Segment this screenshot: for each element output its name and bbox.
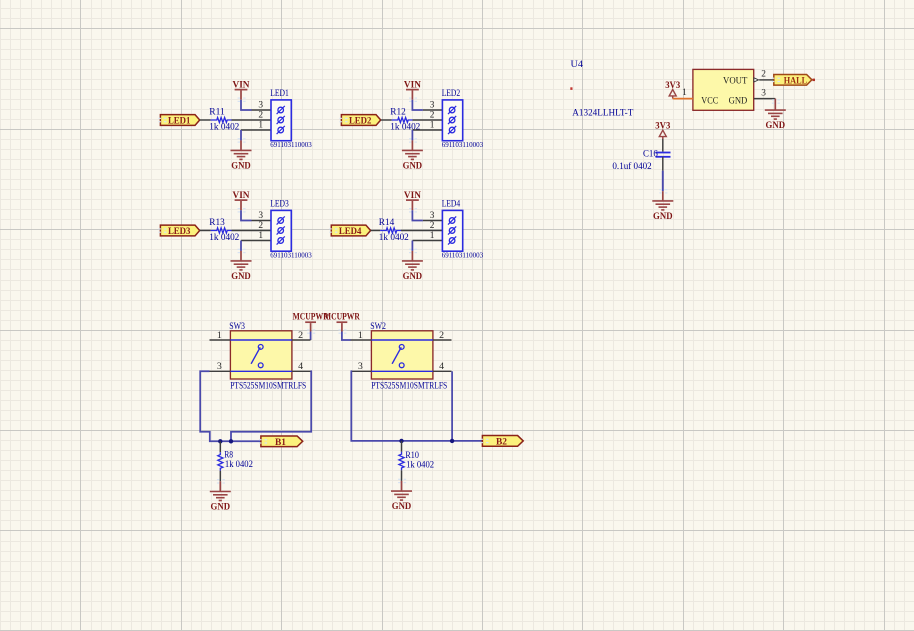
svg-text:GND: GND	[231, 272, 251, 282]
svg-text:1k 0402: 1k 0402	[379, 232, 409, 242]
junction node (R8 tap)	[218, 439, 222, 443]
svg-text:LED1: LED1	[270, 89, 289, 99]
svg-text:0.1uf 0402: 0.1uf 0402	[612, 161, 652, 171]
wire VIN to pin 3 of LED3	[241, 210, 252, 220]
pin 3 of LED3	[252, 220, 272, 222]
svg-text:PTS525SM10SMTRLFS: PTS525SM10SMTRLFS	[371, 380, 447, 390]
svg-text:GND: GND	[231, 162, 251, 172]
pin 1 of SW2	[351, 339, 372, 341]
wire SW3 pin 3 to B1	[200, 371, 261, 441]
ground GND (LED3 block)	[231, 249, 252, 282]
power VIN (LED4 block)	[404, 191, 421, 212]
pin 4 of SW2	[433, 370, 452, 372]
svg-text:3: 3	[430, 100, 435, 110]
svg-text:2: 2	[439, 330, 444, 341]
svg-text:LED2: LED2	[349, 115, 372, 126]
svg-text:4: 4	[439, 361, 444, 372]
pin 3 of LED4	[423, 220, 443, 222]
svg-text:R8: R8	[224, 449, 233, 459]
wire VIN to pin 3 of LED2	[412, 100, 423, 110]
svg-text:3: 3	[258, 211, 263, 221]
svg-text:1: 1	[358, 330, 363, 341]
wire MCUPWR to SW3 pin 2	[310, 332, 312, 341]
switch SW2 body	[371, 331, 433, 379]
svg-text:2: 2	[430, 221, 435, 231]
svg-text:VCC: VCC	[701, 97, 718, 107]
pin 3 of LED2	[423, 109, 443, 111]
junction node (SW2 pin4 join)	[450, 439, 454, 443]
wire pin 1 to GND	[240, 241, 242, 251]
svg-text:3: 3	[217, 361, 222, 372]
wire port LED2 to resistor R12	[381, 119, 392, 121]
wire pin 1 to GND	[411, 130, 413, 140]
svg-text:LED4: LED4	[339, 226, 362, 237]
svg-text:A1324LLHLT-T: A1324LLHLT-T	[572, 108, 633, 118]
svg-text:1k 0402: 1k 0402	[225, 459, 253, 469]
wire pin 3 down to ground	[774, 99, 776, 110]
pin 2 VOUT of U4	[754, 70, 774, 82]
pin 1 of LED3	[241, 240, 271, 242]
svg-text:VOUT: VOUT	[723, 76, 747, 86]
pin 1 of SW3	[210, 339, 231, 341]
capacitor C16	[643, 148, 671, 158]
svg-text:GND: GND	[211, 503, 231, 513]
svg-text:2: 2	[761, 70, 766, 80]
pin 3 of SW3	[210, 370, 231, 372]
svg-text:2: 2	[258, 110, 263, 120]
port HALL	[772, 74, 812, 86]
wire port LED4 to resistor R14	[371, 230, 381, 232]
pin 2 of SW2	[433, 339, 452, 341]
pin C16 top	[662, 139, 664, 152]
wire C16 to GND	[662, 171, 664, 192]
svg-text:B1: B1	[275, 437, 286, 448]
svg-text:R10: R10	[405, 450, 419, 460]
wire pin 1 to GND	[240, 130, 242, 140]
svg-text:GND: GND	[392, 502, 412, 512]
svg-text:1k 0402: 1k 0402	[209, 122, 239, 132]
svg-text:691103110003: 691103110003	[270, 251, 312, 259]
svg-text:LED3: LED3	[270, 199, 289, 209]
svg-text:4: 4	[298, 361, 303, 372]
svg-text:1k 0402: 1k 0402	[406, 460, 434, 470]
wire VIN to pin 3 of LED4	[412, 210, 423, 220]
svg-text:2: 2	[298, 330, 303, 341]
junction node (SW3 pin4 join)	[229, 439, 233, 443]
pin 3 GND of U4	[754, 88, 775, 98]
svg-text:3: 3	[430, 211, 435, 221]
pin 1 of LED4	[412, 240, 442, 242]
wire resistor R13 to pin 2	[232, 230, 272, 232]
wire pin 1 to GND	[411, 241, 413, 251]
wire R8 to GND	[219, 481, 221, 491]
power MCUPWR (SW3)	[293, 311, 329, 333]
svg-text:SW3: SW3	[229, 322, 245, 332]
svg-text:LED2: LED2	[442, 89, 461, 99]
svg-text:R14: R14	[379, 217, 395, 227]
pin 3 of LED1	[252, 109, 272, 111]
op-amp U4 body	[693, 69, 754, 110]
wire resistor R12 to pin 2	[413, 119, 443, 121]
svg-text:MCUPWR: MCUPWR	[324, 311, 360, 321]
ground GND (LED4 block)	[402, 249, 423, 282]
pin 3 of SW2	[351, 370, 372, 372]
svg-text:3: 3	[761, 88, 766, 98]
ground GND (U4)	[765, 99, 786, 131]
svg-text:3: 3	[358, 361, 363, 372]
ground GND (R8)	[210, 479, 231, 512]
port B1	[259, 436, 303, 448]
svg-text:691103110003: 691103110003	[442, 251, 484, 259]
svg-text:1: 1	[217, 330, 222, 341]
resistor R10	[399, 450, 419, 470]
svg-text:2: 2	[258, 221, 263, 231]
wire junction to R10	[401, 441, 403, 452]
svg-text:U4: U4	[571, 60, 584, 70]
svg-text:691103110003: 691103110003	[270, 141, 312, 149]
svg-text:GND: GND	[403, 162, 423, 172]
resistor R8	[218, 449, 234, 470]
svg-text:GND: GND	[766, 121, 786, 131]
svg-text:1: 1	[258, 231, 263, 241]
svg-text:1k 0402: 1k 0402	[209, 232, 239, 242]
wire resistor R14 to pin 2	[401, 230, 442, 232]
wire 3V3 to VCC pin 1 (highlighted)	[673, 98, 693, 100]
ground GND (LED1 block)	[231, 138, 252, 171]
power VIN (LED2 block)	[404, 81, 421, 102]
svg-text:B2: B2	[496, 436, 507, 447]
power 3V3 (U4)	[665, 80, 680, 99]
wire R10 to GND	[401, 481, 403, 491]
svg-text:LED1: LED1	[168, 115, 191, 126]
pin R8 bottom	[219, 471, 221, 482]
port LED1	[159, 115, 200, 127]
svg-text:LED3: LED3	[168, 226, 191, 237]
pin R10 bottom	[401, 470, 403, 481]
svg-text:R13: R13	[209, 217, 225, 227]
wire VIN to pin 3 of LED1	[241, 100, 252, 110]
power 3V3 (C16)	[655, 121, 670, 139]
svg-text:LED4: LED4	[442, 199, 461, 209]
resistor R11	[209, 106, 231, 122]
svg-text:1: 1	[430, 231, 435, 241]
power VIN (LED3 block)	[233, 191, 250, 212]
junction node (R10 tap)	[399, 439, 403, 443]
wire SW3 pin 4 to B1	[231, 371, 311, 441]
port LED4	[329, 225, 370, 237]
svg-text:691103110003: 691103110003	[442, 141, 484, 149]
ground GND (R10)	[391, 479, 412, 513]
resistor R14	[379, 217, 401, 233]
wire junction to R8	[219, 441, 221, 452]
connector LED1 body	[271, 100, 291, 141]
ground GND (C16)	[652, 189, 673, 222]
pin 2 of SW3	[292, 339, 311, 341]
svg-text:GND: GND	[403, 272, 423, 282]
no-connect dot at HALL tip	[813, 79, 816, 82]
port LED3	[159, 225, 200, 237]
resistor R13	[209, 217, 231, 233]
wire SW2 pin 3 to B2	[351, 371, 483, 441]
svg-text:R11: R11	[209, 106, 225, 116]
power VIN (LED1 block)	[233, 81, 250, 102]
connector LED2 body	[442, 100, 462, 141]
wire resistor R11 to pin 2	[232, 119, 272, 121]
port LED2	[340, 115, 381, 127]
pin 4 of SW3	[292, 370, 311, 372]
svg-text:2: 2	[430, 110, 435, 120]
pin 1 of LED2	[412, 129, 442, 131]
wire SW2 pin 4 down	[451, 371, 453, 441]
pin 1 of LED1	[241, 129, 271, 131]
wire port LED1 to resistor R11	[200, 119, 211, 121]
pin C16 bottom	[662, 157, 664, 171]
svg-text:HALL: HALL	[784, 75, 808, 86]
connector LED4 body	[442, 210, 462, 251]
switch SW3 body	[230, 331, 292, 379]
svg-text:1: 1	[430, 120, 435, 130]
ground GND (LED2 block)	[402, 138, 423, 171]
wire port LED3 to resistor R13	[200, 230, 211, 232]
svg-text:GND: GND	[653, 212, 673, 222]
svg-text:1: 1	[258, 120, 263, 130]
svg-text:C16: C16	[643, 148, 658, 158]
svg-text:3: 3	[258, 100, 263, 110]
svg-text:R12: R12	[390, 106, 406, 116]
svg-text:GND: GND	[729, 97, 748, 107]
connector LED3 body	[271, 210, 291, 251]
resistor R12	[390, 106, 412, 122]
svg-text:PTS525SM10SMTRLFS: PTS525SM10SMTRLFS	[230, 380, 306, 390]
red marker dot	[570, 87, 572, 90]
port B2	[481, 436, 524, 448]
svg-text:1: 1	[682, 88, 687, 98]
wire MCUPWR to SW2 pin 1	[342, 332, 351, 341]
svg-text:SW2: SW2	[370, 322, 386, 332]
power MCUPWR (SW2)	[324, 311, 360, 333]
